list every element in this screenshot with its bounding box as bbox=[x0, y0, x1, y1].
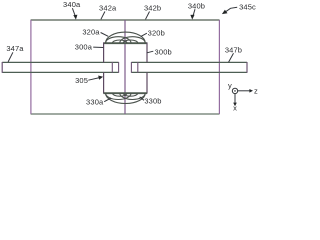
svg-text:330a: 330a bbox=[86, 97, 104, 106]
svg-text:y: y bbox=[228, 81, 232, 90]
svg-text:342b: 342b bbox=[144, 4, 161, 13]
svg-text:z: z bbox=[254, 86, 258, 95]
svg-text:320a: 320a bbox=[82, 27, 100, 36]
svg-text:345c: 345c bbox=[239, 3, 256, 12]
svg-text:340b: 340b bbox=[188, 1, 205, 10]
svg-text:x: x bbox=[233, 104, 237, 113]
svg-text:340a: 340a bbox=[63, 0, 81, 9]
svg-text:305: 305 bbox=[75, 76, 88, 85]
svg-text:347a: 347a bbox=[6, 44, 24, 53]
svg-text:342a: 342a bbox=[99, 4, 117, 13]
svg-text:320b: 320b bbox=[148, 28, 165, 37]
svg-text:300b: 300b bbox=[155, 47, 172, 56]
svg-text:330b: 330b bbox=[144, 97, 161, 106]
svg-text:300a: 300a bbox=[75, 43, 93, 52]
svg-text:347b: 347b bbox=[225, 45, 242, 54]
